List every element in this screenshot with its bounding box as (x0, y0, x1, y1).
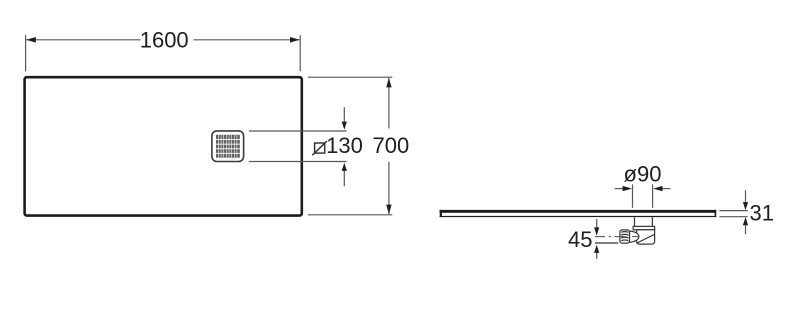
svg-text:700: 700 (373, 133, 410, 158)
svg-text:31: 31 (750, 200, 774, 225)
svg-text:130: 130 (326, 133, 363, 158)
svg-text:45: 45 (568, 227, 592, 252)
svg-text:ø90: ø90 (624, 162, 662, 187)
svg-text:1600: 1600 (140, 28, 189, 53)
